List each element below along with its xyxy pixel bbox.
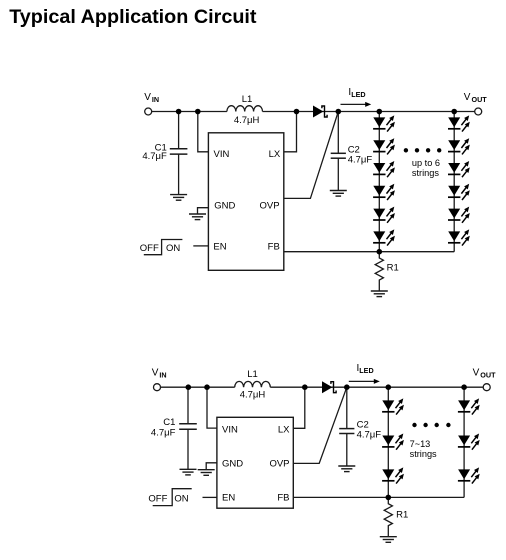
svg-text:IN: IN: [159, 371, 166, 380]
svg-text:LED: LED: [359, 366, 373, 375]
svg-text:IN: IN: [152, 95, 159, 104]
svg-text:FB: FB: [268, 242, 280, 253]
svg-text:OVP: OVP: [260, 201, 280, 212]
svg-text:L1: L1: [247, 369, 258, 380]
svg-text:OUT: OUT: [472, 95, 488, 104]
svg-text:LED: LED: [351, 90, 365, 99]
svg-text:V: V: [464, 92, 471, 103]
svg-text:LX: LX: [269, 149, 281, 160]
svg-text:L1: L1: [242, 94, 253, 105]
svg-text:GND: GND: [222, 458, 243, 469]
svg-text:Typical Application Circuit: Typical Application Circuit: [9, 6, 257, 28]
svg-text:7~13: 7~13: [410, 439, 431, 449]
svg-text:EN: EN: [222, 492, 235, 503]
svg-text:4.7μF: 4.7μF: [151, 428, 176, 439]
svg-text:R1: R1: [396, 510, 408, 521]
svg-text:GND: GND: [214, 201, 235, 212]
svg-text:EN: EN: [213, 242, 226, 253]
svg-text:OUT: OUT: [480, 371, 496, 380]
svg-text:strings: strings: [412, 168, 439, 178]
svg-text:R1: R1: [387, 262, 399, 273]
svg-text:4.7μH: 4.7μH: [240, 389, 266, 400]
svg-text:OFF: OFF: [148, 494, 167, 505]
svg-text:LX: LX: [278, 424, 290, 435]
svg-text:V: V: [144, 92, 151, 103]
svg-text:4.7μF: 4.7μF: [142, 151, 167, 162]
svg-text:4.7μF: 4.7μF: [348, 155, 373, 166]
svg-text:ON: ON: [174, 494, 188, 505]
svg-text:VIN: VIN: [214, 149, 230, 160]
svg-text:FB: FB: [277, 492, 289, 503]
svg-text:4.7μH: 4.7μH: [234, 115, 260, 126]
svg-text:VIN: VIN: [222, 424, 238, 435]
svg-text:ON: ON: [166, 243, 180, 254]
svg-text:strings: strings: [410, 449, 437, 459]
svg-text:4.7μF: 4.7μF: [357, 429, 382, 440]
svg-text:up to 6: up to 6: [412, 158, 440, 168]
svg-text:OVP: OVP: [269, 458, 289, 469]
svg-text:V: V: [473, 368, 480, 379]
svg-text:OFF: OFF: [140, 243, 159, 254]
svg-text:V: V: [152, 368, 159, 379]
